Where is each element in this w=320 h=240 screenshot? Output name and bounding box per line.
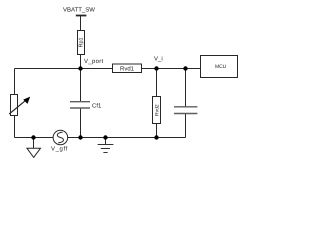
wire Rvd2 to bottom bus bbox=[156, 124, 158, 138]
svg-text:VBATT_SW: VBATT_SW bbox=[63, 6, 95, 13]
wire left branch down bbox=[14, 69, 16, 95]
svg-text:Rvd2: Rvd2 bbox=[155, 104, 161, 116]
junction V_i bbox=[154, 66, 158, 70]
junction cap2 top bbox=[183, 66, 187, 70]
variable resistor arrowhead bbox=[23, 97, 30, 104]
wire main bus V_port row bbox=[15, 68, 201, 70]
junction Cf1 bottom bbox=[78, 135, 82, 139]
capacitor C2 plates bbox=[174, 107, 197, 114]
AC source sine bbox=[57, 132, 63, 143]
wire bottom bus left bbox=[15, 137, 54, 139]
svg-text:V_i: V_i bbox=[154, 56, 163, 63]
wire ground stub triangle bbox=[33, 138, 35, 149]
wire varistor to bottom bus bbox=[14, 116, 16, 138]
wire V_i to Rvd2 bbox=[156, 69, 158, 97]
wire Cf1 branch lower bbox=[80, 108, 82, 137]
svg-text:V_port: V_port bbox=[84, 58, 104, 65]
AC source V_off circle bbox=[53, 130, 68, 145]
resistor Rvd2 bbox=[153, 97, 161, 124]
junction ground triangle bbox=[31, 135, 35, 139]
svg-text:V_gff: V_gff bbox=[51, 146, 68, 153]
wire earth ground stub bbox=[105, 138, 107, 145]
wire power stem to Rp1 bbox=[80, 16, 82, 31]
svg-text:MCU: MCU bbox=[215, 64, 227, 70]
wire cap2 branch lower bbox=[185, 114, 187, 138]
variable resistor box bbox=[11, 95, 18, 116]
svg-text:Rp1: Rp1 bbox=[79, 37, 85, 47]
wire cap2 branch upper bbox=[185, 69, 187, 107]
power symbol VBATT_SW bar bbox=[76, 15, 87, 17]
wire Rp1 to V_port junction bbox=[80, 55, 82, 69]
wire bottom bus right of source bbox=[67, 137, 185, 139]
resistor Rvd1 bbox=[113, 64, 142, 73]
junction earth ground bbox=[103, 135, 107, 139]
earth ground bars bbox=[98, 145, 114, 153]
wire Cf1 branch upper bbox=[80, 69, 82, 102]
MCU box U1 bbox=[201, 56, 238, 78]
junction V_port bbox=[78, 66, 82, 70]
resistor Rp1 bbox=[78, 31, 85, 55]
ground triangle bbox=[27, 148, 41, 157]
svg-text:Rvd1: Rvd1 bbox=[120, 66, 135, 73]
svg-text:Cf1: Cf1 bbox=[92, 103, 102, 110]
junction Rvd2 bottom bbox=[154, 135, 158, 139]
capacitor Cf1 plates bbox=[70, 102, 90, 108]
variable resistor arrow bbox=[9, 100, 26, 114]
